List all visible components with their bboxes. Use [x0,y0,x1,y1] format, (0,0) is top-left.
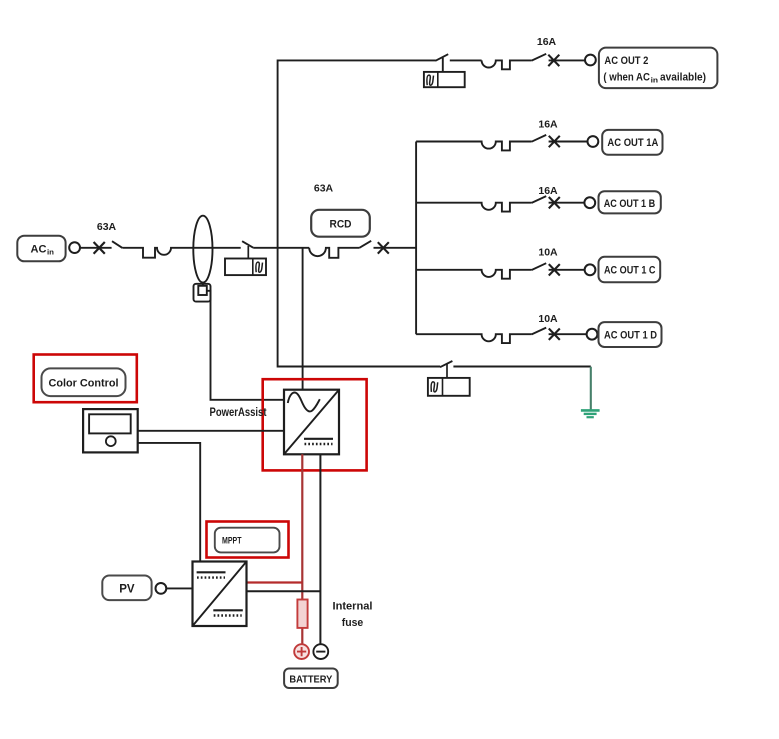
label box AC OUT 1 B [599,191,661,213]
breaker (RCD row, 63A) [309,248,359,258]
svg-text:PV: PV [119,583,135,595]
relay K1 (main transfer relay) [225,259,266,276]
link: switch to relay coil [247,246,249,259]
fuse X (16A) row 1A [549,136,560,147]
label box PV [102,576,151,601]
svg-text:Internal: Internal [333,601,373,613]
wire: panel lower to MPPT top [138,443,201,562]
switch blade row 1A [532,135,547,142]
relay K3 (ground relay) [428,378,470,396]
battery + terminal [294,644,309,659]
svg-text:available): available) [660,71,706,83]
solar charger U2 (MPPT dc-dc) [193,562,247,627]
wire: MPPT DC- to battery bus [247,590,321,592]
svg-text:MPPT: MPPT [222,535,242,546]
label box AC OUT 2 [599,48,718,89]
wire: earth drop (green) [590,367,592,410]
svg-text:16A: 16A [538,185,558,197]
label box Color Control [42,368,126,396]
CT secondary pickup [194,282,211,301]
wire + breaker CB-1B row [416,203,531,212]
svg-text:BATTERY: BATTERY [289,674,332,686]
wire + breaker CB-1C row [416,270,531,279]
svg-text:AC OUT 1 D: AC OUT 1 D [604,330,657,342]
terminal circle 1A [588,136,599,147]
fuse F1 internal (red) [297,600,307,628]
wire + breaker CB-1D row [416,334,531,343]
wire AC in to fuse [80,247,112,249]
label box AC OUT 1 C [599,257,661,283]
switch blade row 1C [532,263,547,270]
svg-text:in: in [651,78,659,85]
switch blade row 1D [532,328,547,335]
wire RCD switch to bus [374,247,417,249]
wire: DC- inverter to battery [319,454,321,644]
wire main after transfer switch to RCD [253,247,309,249]
terminal circle 1C [585,264,596,275]
terminal circle AC in [69,242,80,253]
svg-text:fuse: fuse [342,617,364,629]
inverter/charger U1 (Multi) [284,390,339,455]
link: blade to ground relay coil [446,364,448,378]
terminal circle AC OUT 2 [585,55,596,66]
highlight rect (red) around inverter U1 [263,379,367,470]
ground symbol (earth, green) [581,410,600,417]
svg-text:in: in [47,249,54,256]
svg-text:Color Control: Color Control [49,377,119,389]
wire: AC OUT 2 feeder from pre-RCD node, vertical drop to ground-relay row [278,60,441,366]
label box MPPT [215,528,280,553]
current transformer CT (toroid) [193,216,212,283]
wire to terminal 1A [549,141,588,143]
fuse X (63A) main input [94,242,105,254]
wire: panel to inverter left (upper) [138,430,284,432]
node: AC bus vertical [415,142,417,335]
svg-text:AC OUT 1 B: AC OUT 1 B [604,198,656,210]
svg-text:63A: 63A [97,221,117,233]
svg-text:RCD: RCD [330,218,352,230]
svg-text:16A: 16A [538,119,558,131]
svg-text:PowerAssist: PowerAssist [210,407,267,419]
switch blade row 1B [532,196,547,203]
highlight rect (red) around MPPT [207,522,289,558]
label box AC OUT 1 D [599,322,662,347]
battery - terminal [313,644,328,659]
svg-text:63A: 63A [314,183,334,195]
label box BATTERY [284,669,338,689]
fuse X (10A) row 1D [549,329,560,340]
switch S2 (transfer switch, AC OUT 2 row) [435,54,448,72]
label box AC in [17,236,65,262]
wire: ground relay row to earth drop [453,366,590,368]
terminal circle 1B [584,197,595,208]
svg-text:10A: 10A [538,246,558,258]
terminal circle PV [156,583,167,594]
wire to terminal 1B [549,202,585,204]
wire: MPPT DC+ to battery red bus [247,581,303,583]
fuse X (10A) row 1C [549,264,560,275]
fuse X (RCD row) [378,242,389,253]
wire: AC to inverter (from pre-RCD node down) [302,248,304,390]
svg-text:AC OUT 1A: AC OUT 1A [607,137,658,149]
label box AC OUT 1A [602,130,662,155]
fuse X (16A) row 1B [549,197,560,208]
switch blade AC OUT 2 row [532,54,547,61]
wire: PV to MPPT [166,587,192,589]
switch blade after RCD [359,241,371,248]
svg-text:AC OUT 1 C: AC OUT 1 C [604,265,656,277]
wire + breaker CB main (63A) [122,248,240,258]
svg-text:( when AC: ( when AC [603,71,650,83]
highlight rect (red) around Color Control [34,355,137,403]
svg-text:10A: 10A [538,313,558,325]
wire to terminal 1C [549,269,585,271]
wire to terminal AC OUT 2 [549,59,585,61]
wire: DC+ inverter to battery (red) [301,454,303,644]
wire to terminal 1D [549,333,587,335]
terminal circle 1D [587,329,598,340]
switch blade main (transfer) [242,241,253,248]
switch blade (ground relay row) [440,361,452,367]
wire: CT secondary to inverter left (sense line) [207,291,284,400]
fuse X (16A) AC OUT 2 row [548,55,559,66]
circuit breaker CB2 (thermal-magnetic) AC OUT 2 row [482,60,532,69]
svg-text:AC: AC [31,243,47,255]
wire + breaker CB-1A row [416,142,531,151]
svg-text:AC OUT 2: AC OUT 2 [604,55,648,67]
switch blade main input [112,241,122,248]
remote panel (Multi Control) [83,409,138,452]
relay K2 (AC OUT 2 row) [424,72,465,87]
wire: AC OUT 2 row after switch [450,59,482,61]
label box RCD [311,210,370,237]
svg-text:16A: 16A [537,36,557,48]
